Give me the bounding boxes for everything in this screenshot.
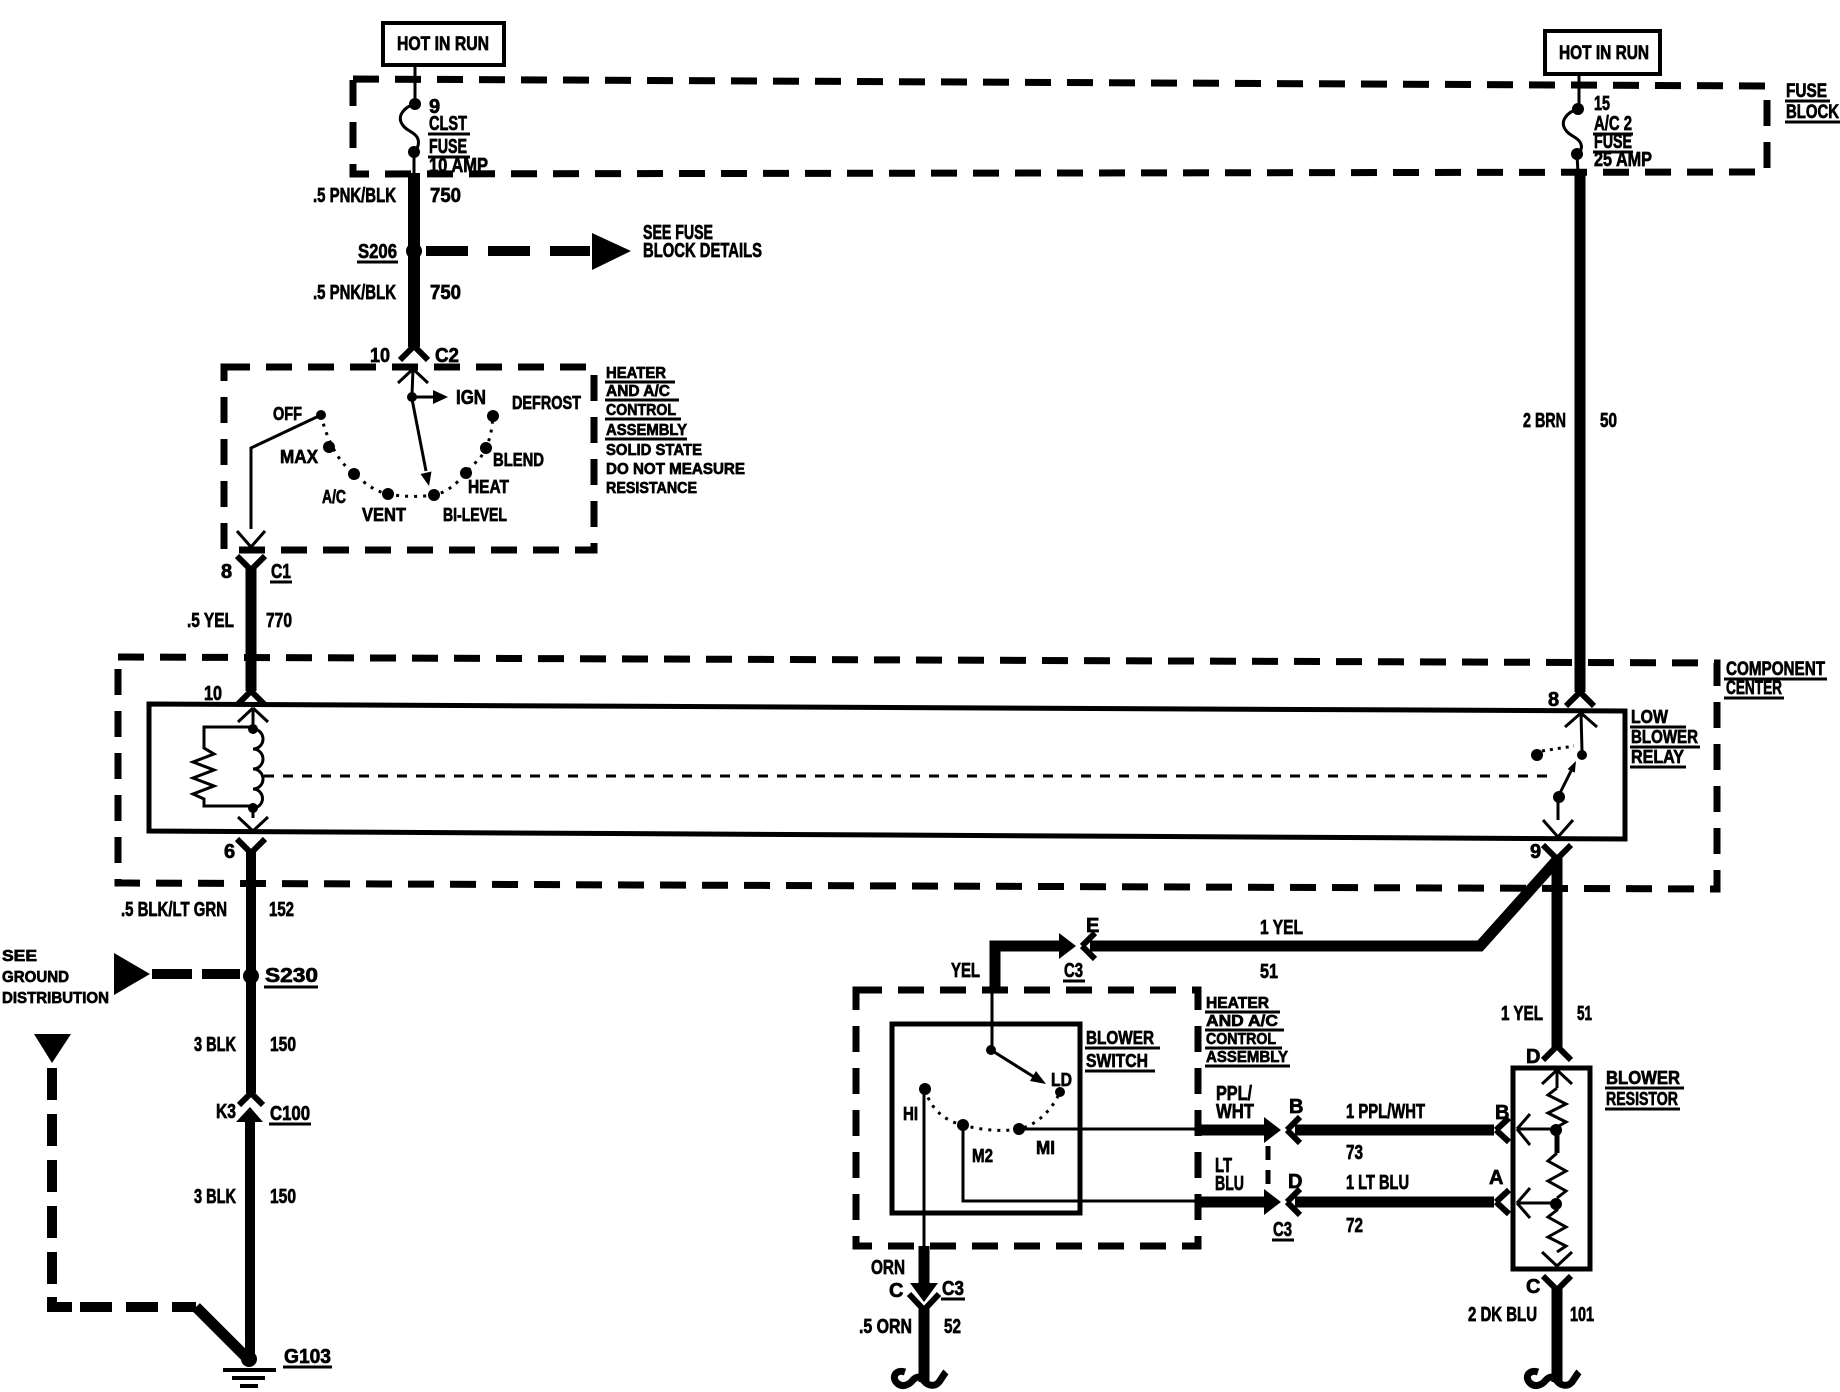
svg-text:RESISTANCE: RESISTANCE: [606, 480, 697, 497]
blower switch position labels: [903, 1070, 1072, 1166]
svg-text:1 YEL: 1 YEL: [1501, 1003, 1543, 1025]
wire MI to connector C3 B (PPL/WHT): [1019, 1128, 1197, 1131]
svg-text:SEE: SEE: [2, 948, 37, 965]
ORN wire break squiggle: [894, 1371, 946, 1385]
resistor pin A connector: [1496, 1190, 1509, 1214]
wire 1 PPL/WHT 73 to resistor B: [1295, 1125, 1494, 1136]
relay contact left dot: [1531, 749, 1543, 761]
relay contact fixed dot: [1577, 750, 1587, 760]
svg-text:B: B: [1289, 1096, 1303, 1118]
wiper line from OFF to output: [251, 415, 321, 529]
IGN arrow: [412, 396, 434, 399]
svg-text:72: 72: [1346, 1215, 1363, 1237]
dashed C3 boundary between B and D: [1266, 1146, 1271, 1191]
low blower relay box: [149, 704, 1625, 839]
connector C3 pin E: [1059, 933, 1076, 959]
relay coil junction top: [248, 724, 258, 734]
svg-text:HOT IN RUN: HOT IN RUN: [1559, 43, 1649, 64]
svg-text:50: 50: [1600, 410, 1617, 432]
svg-text:DO NOT MEASURE: DO NOT MEASURE: [606, 461, 745, 478]
svg-text:D: D: [1288, 1171, 1302, 1193]
svg-text:HI: HI: [903, 1104, 918, 1124]
HOT IN RUN box left: [383, 23, 504, 65]
svg-text:C100: C100: [270, 1103, 310, 1125]
relay pin 6 connector: [238, 817, 268, 831]
relay pin 9 connector: [1543, 820, 1573, 837]
wire 1 LT BLU 72 to resistor A: [1295, 1197, 1494, 1208]
connector C3 pin C: [910, 1283, 938, 1302]
wire 3 BLK 150 lower: [245, 1122, 255, 1357]
svg-text:RESISTOR: RESISTOR: [1606, 1089, 1678, 1109]
see ground distribution arrow: [114, 953, 150, 995]
off-page dashed ground route: [34, 1034, 71, 1063]
heater and A/C control assembly dashed box 2: [856, 990, 1198, 1246]
svg-text:SOLID STATE: SOLID STATE: [606, 442, 702, 459]
svg-text:101: 101: [1570, 1304, 1594, 1326]
svg-text:C: C: [1526, 1276, 1540, 1298]
dashed arrow to SEE FUSE BLOCK DETAILS: [426, 246, 590, 256]
svg-text:HEATER: HEATER: [1206, 995, 1269, 1012]
svg-text:BLOWER: BLOWER: [1606, 1068, 1680, 1088]
blower resistor element 3: [1548, 1204, 1566, 1252]
ground G103: [241, 1351, 257, 1367]
svg-text:150: 150: [270, 1186, 296, 1208]
connector C3 pin D: [1264, 1189, 1281, 1215]
svg-text:A/C: A/C: [322, 487, 346, 507]
svg-text:D: D: [1526, 1046, 1540, 1068]
heater control assembly 2 label: [1206, 995, 1288, 1066]
relay contact pivot dot: [1553, 791, 1565, 803]
svg-text:K3: K3: [216, 1101, 236, 1123]
resistor tap A dot: [1550, 1198, 1562, 1210]
connector C1 pin 8: [237, 556, 265, 570]
svg-text:C3: C3: [1273, 1219, 1292, 1241]
svg-text:B: B: [1495, 1102, 1509, 1124]
fuse CLST 10 AMP: [409, 98, 421, 110]
svg-text:BLOWER: BLOWER: [1086, 1028, 1154, 1048]
svg-text:YEL: YEL: [951, 960, 980, 982]
svg-text:BLU: BLU: [1215, 1173, 1244, 1195]
svg-text:CONTROL: CONTROL: [606, 402, 676, 419]
wire 1 YEL 51 to relay pin 9: [1090, 860, 1557, 946]
svg-text:1 PPL/WHT: 1 PPL/WHT: [1346, 1101, 1425, 1123]
fuse block dashed box: [353, 79, 1767, 174]
svg-text:RELAY: RELAY: [1631, 747, 1684, 767]
wire 3 BLK 150 upper: [194, 1034, 296, 1056]
wire right fuse to relay pin 8 (2 BRN 50): [1575, 172, 1586, 692]
wire HI to connector C3 C (ORN): [923, 1089, 926, 1246]
svg-text:BLOCK DETAILS: BLOCK DETAILS: [643, 240, 762, 262]
relay pin 8 connector: [1566, 692, 1594, 706]
switch wiper pivot: [407, 392, 417, 402]
svg-text:BLOCK: BLOCK: [1786, 102, 1839, 123]
svg-text:73: 73: [1346, 1142, 1363, 1164]
fuse block label: [1786, 81, 1839, 123]
component center dashed box: [118, 657, 1717, 889]
right fuse A/C 2 25 AMP: [1578, 74, 1581, 106]
svg-text:.5 BLK/LT GRN: .5 BLK/LT GRN: [121, 899, 227, 921]
blower resistor label: [1606, 1068, 1680, 1109]
heater and A/C control assembly dashed box: [224, 367, 594, 550]
svg-text:MI: MI: [1036, 1138, 1055, 1158]
wire YEL from blower switch to C3 E: [995, 946, 1060, 991]
svg-text:HEATER: HEATER: [606, 365, 666, 382]
blower switch label: [1086, 1028, 1154, 1071]
svg-text:A: A: [1489, 1167, 1503, 1189]
svg-text:.5 PNK/BLK: .5 PNK/BLK: [313, 185, 396, 207]
svg-text:BI-LEVEL: BI-LEVEL: [443, 505, 507, 525]
splice S230: [243, 968, 259, 984]
svg-text:3 BLK: 3 BLK: [194, 1034, 236, 1056]
svg-text:ASSEMBLY: ASSEMBLY: [1206, 1049, 1288, 1066]
svg-text:COMPONENT: COMPONENT: [1726, 659, 1825, 680]
svg-text:BLOWER: BLOWER: [1631, 727, 1698, 747]
wire relay pin 6 to ground (.5 BLK/LT GRN 152): [246, 850, 256, 1093]
svg-text:G103: G103: [284, 1346, 331, 1368]
svg-text:FUSE: FUSE: [1786, 81, 1827, 102]
svg-text:LD: LD: [1051, 1070, 1072, 1090]
svg-text:C3: C3: [942, 1278, 964, 1300]
svg-text:OFF: OFF: [273, 404, 302, 424]
blower switch pivot dot: [991, 991, 994, 1048]
blower switch box: [892, 1024, 1080, 1213]
svg-text:10: 10: [204, 683, 222, 705]
svg-text:M2: M2: [972, 1146, 993, 1166]
svg-text:52: 52: [944, 1316, 961, 1338]
svg-text:150: 150: [270, 1034, 296, 1056]
svg-text:CONTROL: CONTROL: [1206, 1031, 1276, 1048]
relay pin 10 connector: [237, 691, 265, 705]
svg-text:IGN: IGN: [456, 387, 486, 409]
svg-text:2 BRN: 2 BRN: [1523, 410, 1566, 432]
heater control assembly label: [606, 365, 745, 497]
svg-text:1 YEL: 1 YEL: [1260, 917, 1303, 939]
resistor tap B dot: [1550, 1124, 1562, 1136]
relay coil junction bottom: [248, 803, 258, 813]
svg-text:E: E: [1086, 915, 1099, 937]
svg-text:CENTER: CENTER: [1726, 678, 1782, 699]
svg-text:HOT IN RUN: HOT IN RUN: [397, 34, 489, 55]
relay contact dotted throw: [1542, 746, 1574, 751]
svg-text:770: 770: [266, 610, 292, 632]
svg-text:2 DK BLU: 2 DK BLU: [1468, 1304, 1537, 1326]
svg-text:ORN: ORN: [871, 1257, 905, 1279]
svg-text:CLST: CLST: [429, 113, 467, 135]
svg-text:3 BLK: 3 BLK: [194, 1186, 236, 1208]
relay coil: [253, 729, 263, 808]
svg-text:8: 8: [221, 561, 232, 583]
blower resistor element 2: [1548, 1153, 1566, 1198]
blower resistor element 1: [1548, 1088, 1566, 1127]
svg-text:DISTRIBUTION: DISTRIBUTION: [2, 990, 109, 1007]
relay actuation dashed line: [264, 775, 1552, 778]
wire diagonal to G103: [196, 1307, 246, 1357]
wire from left HOT IN RUN box to fuse: [414, 65, 417, 101]
resistor pin C connector: [1542, 1252, 1572, 1266]
blower resistor box: [1513, 1068, 1590, 1269]
component center label: [1726, 659, 1825, 699]
svg-text:8: 8: [1548, 689, 1559, 711]
svg-text:.5 YEL: .5 YEL: [187, 610, 234, 632]
wire C1 to relay (.5 YEL 770): [246, 567, 257, 691]
wiper arrow to BI-LEVEL: [412, 399, 426, 471]
wire .5 ORN 52 off page: [919, 1308, 930, 1382]
svg-text:51: 51: [1260, 961, 1278, 983]
svg-text:51: 51: [1577, 1003, 1592, 1025]
rotary switch position dots and arc: [316, 410, 326, 420]
connector C2 pin 10: [400, 346, 428, 360]
connector C3 pin B: [1264, 1117, 1281, 1143]
svg-text:ASSEMBLY: ASSEMBLY: [606, 422, 687, 439]
svg-text:C1: C1: [271, 561, 291, 583]
wire M2 to connector C3 D (LT BLU): [963, 1125, 1197, 1201]
blower switch position dots and arc: [919, 1083, 931, 1095]
DK BLU wire break squiggle: [1527, 1371, 1579, 1385]
svg-text:SWITCH: SWITCH: [1086, 1051, 1148, 1071]
resistor pin B connector: [1496, 1118, 1509, 1142]
svg-text:.5 ORN: .5 ORN: [859, 1316, 912, 1338]
blower switch wiper arrow: [991, 1050, 1034, 1077]
relay resistor: [193, 727, 253, 806]
relay movable contact arm: [1559, 769, 1572, 795]
splice S206: [406, 243, 422, 259]
svg-text:152: 152: [269, 899, 294, 921]
C2 mating half inside control head: [398, 369, 428, 395]
svg-text:C3: C3: [1064, 960, 1083, 982]
wire 2 DK BLU 101 off page: [1552, 1288, 1563, 1382]
svg-text:AND A/C: AND A/C: [1206, 1013, 1278, 1030]
svg-text:DEFROST: DEFROST: [512, 393, 581, 413]
svg-text:HEAT: HEAT: [468, 477, 509, 497]
svg-text:750: 750: [430, 282, 461, 304]
wire fuse to C2 (.5 PNK/BLK 750): [408, 173, 420, 347]
svg-text:9: 9: [1530, 841, 1541, 863]
svg-text:.5 PNK/BLK: .5 PNK/BLK: [313, 282, 396, 304]
svg-text:LOW: LOW: [1631, 707, 1668, 727]
connector C100 pin K3: [239, 1093, 263, 1105]
svg-text:AND A/C: AND A/C: [606, 383, 670, 400]
svg-text:S206: S206: [358, 241, 397, 263]
low blower relay label: [1631, 707, 1698, 767]
wire 1 YEL 51 relay pin 9 to blower resistor D: [1552, 856, 1563, 1047]
svg-text:S230: S230: [265, 965, 318, 987]
svg-text:C: C: [889, 1280, 903, 1302]
switch position labels: [273, 393, 581, 525]
svg-text:VENT: VENT: [362, 505, 406, 525]
svg-text:750: 750: [430, 185, 461, 207]
svg-text:WHT: WHT: [1216, 1101, 1254, 1123]
svg-text:MAX: MAX: [280, 447, 318, 467]
HOT IN RUN box right: [1545, 31, 1660, 74]
svg-text:6: 6: [224, 841, 235, 863]
svg-text:1 LT BLU: 1 LT BLU: [1346, 1172, 1409, 1194]
svg-text:GROUND: GROUND: [2, 969, 69, 986]
svg-text:BLEND: BLEND: [493, 450, 544, 470]
resistor pin D connector: [1543, 1046, 1571, 1060]
svg-text:15: 15: [1594, 93, 1610, 115]
